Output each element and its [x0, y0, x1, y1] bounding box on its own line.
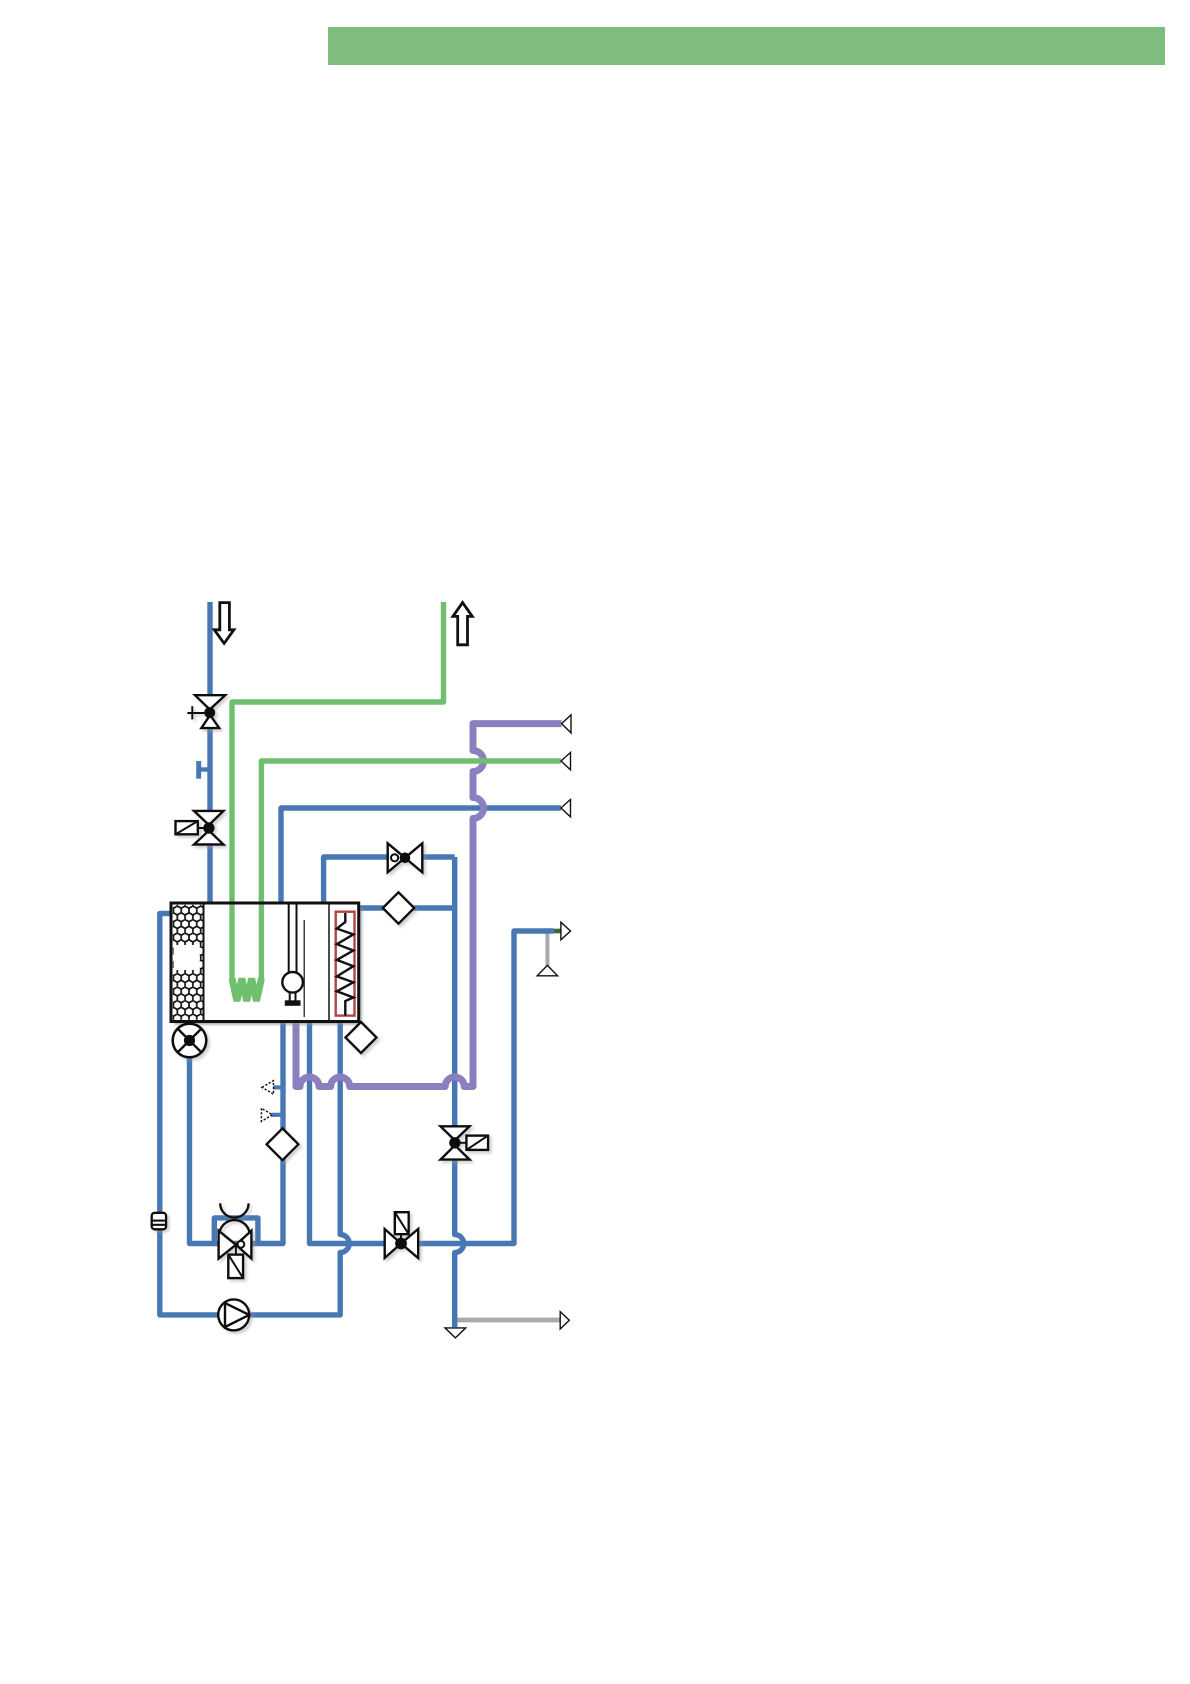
AHU box body [171, 903, 359, 1022]
wire: blue bypass loop over 3-way valve [214, 1218, 258, 1244]
wire: blue valve line to right riser and top-right arrow [310, 931, 554, 1244]
funnel triangle top right [537, 965, 557, 975]
sensor pocket on supply [199, 761, 210, 779]
pump [218, 1299, 249, 1330]
valve V1 balancing valve with handwheel cross [187, 695, 225, 728]
wire: blue return loop with pump baseline and left riser [160, 914, 349, 1315]
wire: gray funnel stem top right [545, 931, 549, 966]
wire: blue supply main vertical [207, 602, 212, 903]
wire: gray drain line bottom [455, 1318, 561, 1323]
wire: green supply line into heater [232, 602, 444, 979]
wire: blue sensor stub upper [273, 1085, 282, 1089]
heating coil zigzag [337, 913, 354, 1016]
wire: green heater line to right arrow [261, 761, 561, 979]
diamond D2 flow symbol [346, 1022, 377, 1053]
valve V2 motorized 2-way valve [176, 811, 224, 845]
wire: blue long vertical x=454.7 with hop over valve line [455, 857, 464, 1327]
wire: blue horizontal AHU right edge y=908 [358, 905, 455, 910]
dashed sensor triangle pointing left [262, 1081, 274, 1095]
wire: blue line AHU top to right arrow (y=808) [281, 808, 561, 903]
AHU filter section honeycomb [173, 905, 204, 1020]
wire: purple condensate/signal line with hops [296, 724, 562, 1087]
arrow down (outside air) [214, 603, 234, 644]
AHU mid divider thin [303, 920, 305, 1017]
strainer on left riser [152, 1213, 166, 1230]
heating coil red frame [336, 912, 355, 1016]
AHU box border [171, 903, 359, 1022]
wire: dark green stub before right arrow [554, 929, 561, 934]
valve V5 motorized 2-way valve bottom [385, 1212, 419, 1258]
humidifier lance [282, 905, 303, 1006]
AHU coil section divider [328, 905, 330, 1021]
fan [173, 1024, 207, 1058]
arrow triangle pointing right y=931 [561, 922, 571, 940]
drain triangle pointing down [445, 1328, 466, 1338]
diamond D1 flow symbol [383, 892, 414, 923]
header green bar [328, 27, 1165, 65]
arrow triangle blue line end y=808 [561, 799, 571, 817]
wire: blue coil loop with valve (y=857) [324, 857, 455, 903]
arrow triangle purple line end [562, 715, 571, 733]
arrow up (supply air) [453, 603, 472, 645]
electric heater element zigzag [232, 979, 261, 1002]
arrow triangle gray line end [560, 1312, 569, 1329]
dashed sensor triangle pointing right [261, 1108, 272, 1121]
arrow triangle green line end [561, 752, 571, 770]
wire: blue sensor stub lower [272, 1113, 282, 1117]
valve V4 motorized 2-way valve right [441, 1126, 489, 1159]
valve V3 with test port on coil loop [388, 843, 423, 872]
3-way pressure valve with diaphragm [219, 1203, 252, 1278]
diamond D3 flow symbol [267, 1128, 299, 1160]
wire: blue 3-way valve line and riser x=283 [190, 1021, 284, 1244]
